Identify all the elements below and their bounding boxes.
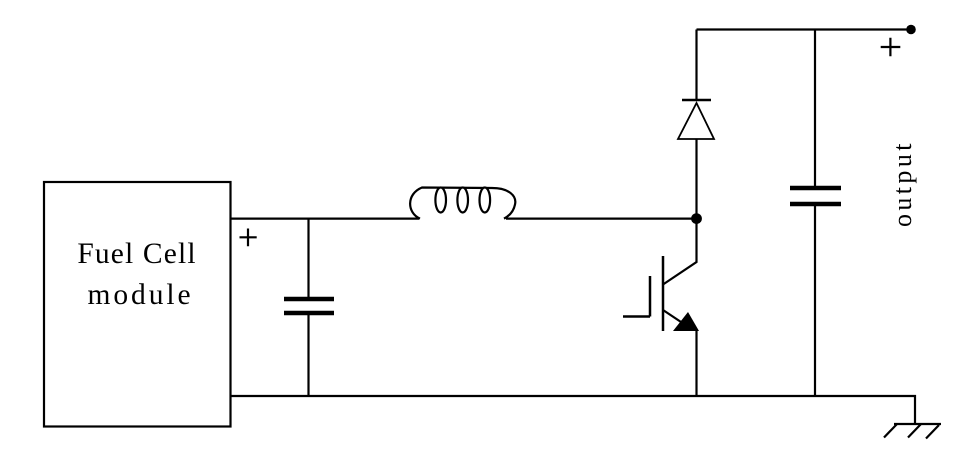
svg-text:module: module	[88, 279, 194, 311]
svg-text:Fuel Cell: Fuel Cell	[77, 238, 196, 270]
svg-text:output: output	[888, 140, 917, 227]
